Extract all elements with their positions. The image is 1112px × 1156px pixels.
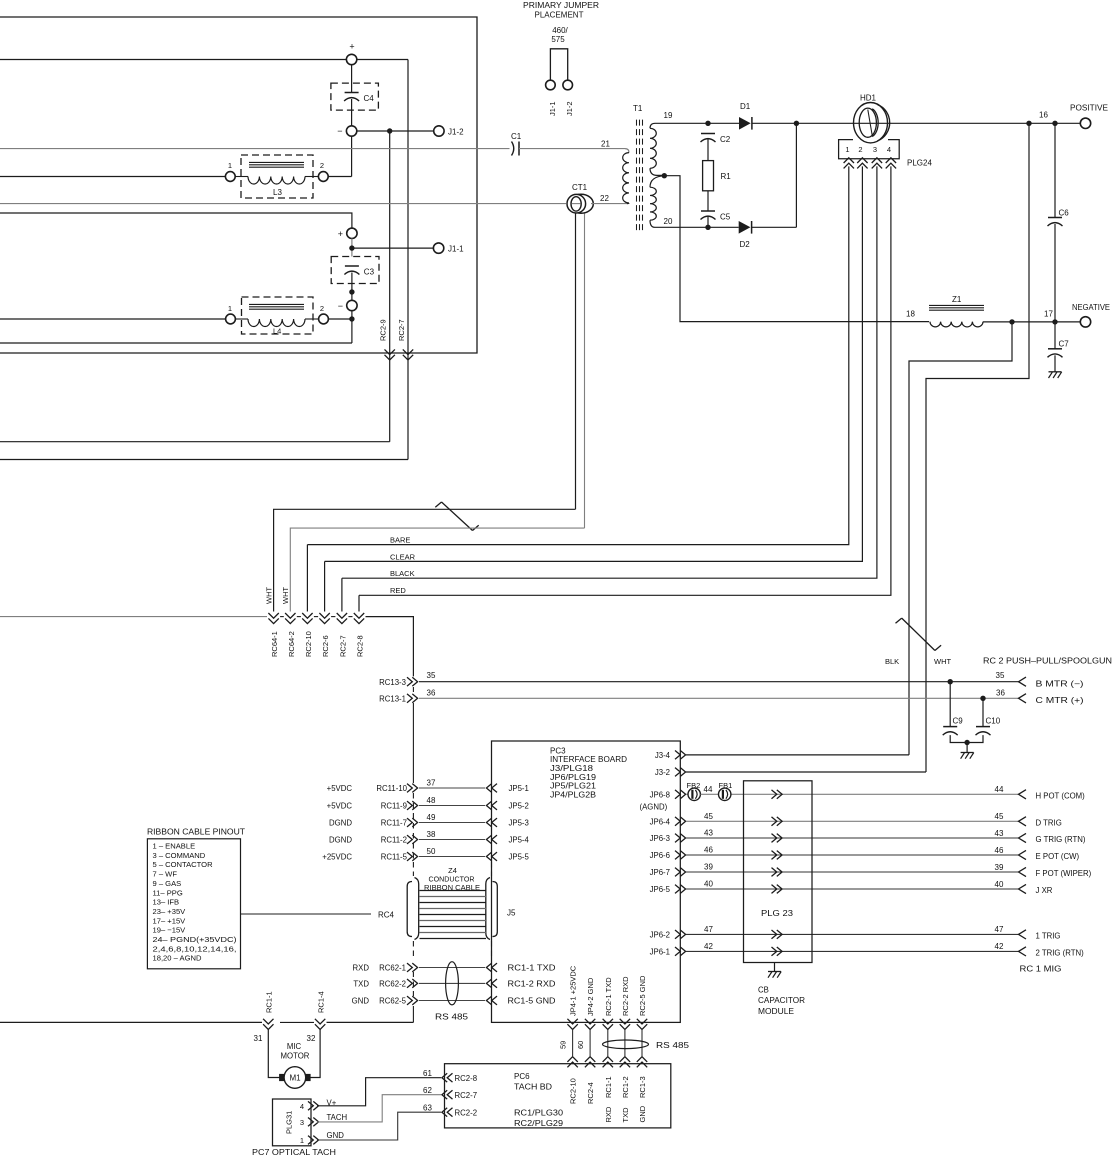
pin RC11-7 (cable side) [329, 818, 418, 827]
PC3 board title text [550, 746, 627, 799]
svg-text:18: 18 [906, 310, 915, 319]
svg-text:R1: R1 [721, 172, 732, 181]
pin JP6-8 [650, 790, 686, 799]
svg-text:+5VDC: +5VDC [327, 784, 353, 793]
pin JP6-1 [650, 947, 686, 956]
node - (terminal, top section) [337, 126, 357, 136]
diode D2 [739, 221, 752, 249]
connector column dashed (RC62 rows) [412, 972, 414, 1022]
label WHT (right) [934, 657, 951, 666]
node 17 / NEGATIVE terminal [1044, 303, 1110, 327]
svg-text:CB: CB [758, 986, 769, 995]
wire PLG24-3 to BLACK [342, 166, 877, 578]
svg-text:59: 59 [559, 1041, 568, 1049]
wire FB2 to FB1 [701, 793, 719, 795]
wire to L4 pin 1 [0, 318, 226, 320]
wire RC2-2 RXD drop [624, 1030, 626, 1057]
wire JP6-2 to 1 TRIG [686, 933, 1019, 935]
svg-text:D1: D1 [740, 102, 751, 111]
transformer T1 secondary bottom winding [650, 176, 664, 228]
svg-text:RC1-1: RC1-1 [265, 991, 274, 1013]
pin E POT (CW) [1019, 850, 1080, 861]
svg-text:RC62-5: RC62-5 [379, 997, 407, 1006]
wire junction to J1-1 [352, 247, 433, 249]
label (AGND) [640, 803, 668, 812]
transformer T1 primary winding [623, 149, 629, 204]
svg-text:44: 44 [995, 785, 1004, 794]
label BLACK [390, 569, 415, 578]
svg-text:JP5/PLG21: JP5/PLG21 [550, 782, 597, 791]
node + (battery positive terminal, top) [346, 42, 356, 65]
label 45 (right) [995, 812, 1004, 821]
junction at L4 pin 2 [349, 316, 354, 321]
pin RC13-3 [379, 677, 417, 687]
svg-text:24– PGND(+35VDC): 24– PGND(+35VDC) [153, 935, 238, 944]
svg-text:JP5-5: JP5-5 [509, 852, 530, 861]
svg-text:49: 49 [427, 813, 436, 822]
svg-text:CAPACITOR: CAPACITOR [758, 996, 805, 1005]
inner section wire box (L4 section return) [0, 342, 352, 344]
pin RC62-2 TXD (cable side) [353, 979, 417, 988]
pin D TRIG [1019, 817, 1062, 828]
svg-text:J1-2: J1-2 [565, 101, 574, 116]
wire 21 (gray) left edge to C1 [0, 148, 510, 150]
svg-text:9 – GAS: 9 – GAS [153, 879, 182, 888]
PLG31 pin 4 [300, 1101, 319, 1110]
wire RC1-4 to motor [310, 1030, 320, 1078]
label RS 485 (PC6 link) [656, 1041, 690, 1050]
pin H POT (COM) [1019, 790, 1086, 801]
wire 37 RC11-10 to JP5-1 [419, 779, 485, 789]
svg-text:44: 44 [704, 785, 713, 794]
label 460/575 [551, 26, 568, 44]
svg-text:62: 62 [423, 1086, 432, 1095]
PLG24 pin 4 [886, 145, 896, 168]
PLG24 pin 2 [857, 145, 867, 168]
svg-text:RC1-4: RC1-4 [317, 991, 326, 1013]
junction positive rail tap A [1026, 121, 1031, 126]
svg-text:DGND: DGND [329, 818, 352, 827]
PLG23 feed-through arrow (JP6-6 row) [772, 851, 783, 860]
svg-text:JP6-1: JP6-1 [650, 947, 670, 956]
pin RC2-2 (PC6 left) [423, 1104, 477, 1118]
label CLEAR [390, 552, 416, 561]
wire WHT 1 (CT1 left to RC64-1) [274, 509, 576, 611]
svg-text:JP5-4: JP5-4 [509, 835, 530, 844]
capacitor C6 chain wire [1054, 123, 1056, 322]
PC6 board text [514, 1072, 564, 1128]
wire - terminal to J1-2 [357, 130, 434, 132]
label WHT 1 [265, 587, 274, 604]
svg-text:1: 1 [228, 161, 232, 170]
ribbon cable bracket (left) [407, 878, 419, 940]
inductor L4 winding [235, 319, 318, 336]
wire - to L4 pin2 junction [351, 311, 353, 343]
wire positive tap to J3-2 drop [926, 123, 1029, 772]
svg-text:J1-1: J1-1 [448, 245, 464, 254]
svg-text:37: 37 [427, 779, 436, 788]
PLG23 feed-through arrow (JP6-3 row) [772, 834, 783, 843]
pin RC2-7 harness entry arrow [337, 613, 348, 657]
jumper terminal J1-1 [546, 80, 557, 116]
svg-text:43: 43 [995, 829, 1004, 838]
svg-text:MOTOR: MOTOR [281, 1052, 310, 1061]
transformer T1 core [637, 120, 643, 232]
svg-text:RC13-3: RC13-3 [379, 678, 406, 687]
svg-text:39: 39 [995, 863, 1004, 872]
svg-text:RS 485: RS 485 [656, 1041, 690, 1050]
wire + terminal feed (y=59.5) from left edge to RC2-7 drop [0, 59, 408, 61]
harness cable line (bottom) with corner [0, 1021, 413, 1023]
label WHT 2 [281, 587, 290, 604]
label RED [390, 586, 406, 595]
svg-text:23– +35V: 23– +35V [153, 907, 187, 916]
jumper link 460/575 [550, 49, 567, 80]
pin F POT (WIPER) [1019, 867, 1092, 878]
svg-text:+25VDC: +25VDC [322, 852, 352, 861]
svg-text:32: 32 [307, 1034, 316, 1043]
svg-text:Z1: Z1 [952, 295, 962, 304]
wire 20 T1 to D2 [655, 226, 739, 228]
svg-text:RC2-7: RC2-7 [397, 319, 406, 341]
svg-text:JP5-3: JP5-3 [509, 818, 529, 827]
svg-text:JP4-2 GND: JP4-2 GND [586, 977, 595, 1016]
svg-text:L3: L3 [273, 188, 282, 197]
svg-text:RC11-10: RC11-10 [376, 784, 407, 793]
svg-text:RC1-1 TXD: RC1-1 TXD [508, 964, 556, 973]
label 46 (left) [704, 846, 713, 855]
pin RC2-5 GND (PC3 bottom) [637, 975, 647, 1029]
svg-text:22: 22 [600, 194, 609, 203]
svg-text:L4: L4 [273, 327, 281, 336]
wire L4 section feed (y=213) to + terminal [0, 213, 352, 228]
PLG23 feed-through arrow (JP6-1 row) [772, 947, 783, 956]
pin 1 TRIG [1019, 930, 1061, 941]
svg-text:1: 1 [228, 304, 232, 313]
svg-text:C2: C2 [720, 135, 731, 144]
svg-text:2,4,6,8,10,12,14,16,: 2,4,6,8,10,12,14,16, [153, 944, 237, 953]
svg-text:J1-2: J1-2 [448, 128, 464, 137]
svg-text:RC1-2: RC1-2 [621, 1076, 630, 1098]
svg-text:5 – CONTACTOR: 5 – CONTACTOR [153, 860, 214, 869]
pin RC2-10 (PC6 top) [567, 1057, 577, 1104]
pin JP4-1 +25VDC (PC3 bottom) [567, 965, 577, 1029]
wire 38 RC11-2 to JP5-4 [419, 830, 485, 840]
connector J1-1 [433, 243, 464, 254]
svg-text:2: 2 [320, 161, 324, 170]
node + (terminal, L4 section) [338, 228, 357, 239]
wire C5 to 20 wire [707, 217, 709, 228]
pin JP6-3 [650, 834, 686, 843]
svg-text:RC2-10: RC2-10 [304, 631, 313, 657]
junction D-rail [794, 121, 799, 126]
svg-text:J3-2: J3-2 [655, 768, 670, 777]
pin RC2-8 harness entry arrow [354, 613, 365, 657]
pin RC11-5 (cable side) [322, 852, 417, 861]
junction C10 tap [980, 696, 985, 701]
svg-text:1 – ENABLE: 1 – ENABLE [153, 842, 196, 851]
capacitor C10 [976, 698, 1001, 735]
PC6 tach board outline [445, 1064, 671, 1128]
svg-text:48: 48 [427, 796, 436, 805]
pin RC2-7 exit arrow [397, 319, 413, 360]
label RC4 [378, 911, 395, 920]
pin RC64-2 harness entry arrow [285, 613, 296, 657]
wire JP6-3 to G TRIG (RTN) [686, 837, 1019, 839]
svg-text:RC2-4: RC2-4 [586, 1082, 595, 1104]
svg-text:RC2-1 TXD: RC2-1 TXD [604, 977, 613, 1016]
ground (CB capacitor module) [768, 972, 781, 978]
svg-text:18,20 – AGND: 18,20 – AGND [153, 954, 202, 963]
label 39 (left) [704, 863, 713, 872]
label PC7 OPTICAL TACH [252, 1148, 336, 1156]
wire 22 (gray) left edge to CT1 [0, 203, 566, 205]
pin J3-2 [655, 768, 686, 777]
svg-text:−: − [337, 126, 342, 136]
svg-text:JP6-7: JP6-7 [650, 868, 670, 877]
svg-text:H POT (COM): H POT (COM) [1036, 792, 1086, 801]
pin RC1-1 TXD [486, 963, 556, 972]
svg-text:46: 46 [704, 846, 713, 855]
pin RC2-7 (PC6 left) [423, 1086, 477, 1100]
svg-text:GND: GND [352, 997, 370, 1006]
svg-text:DGND: DGND [329, 835, 352, 844]
pin C MTR (+) [1019, 694, 1085, 705]
label GND [327, 1131, 345, 1140]
ground (C9/C10) [961, 753, 974, 759]
svg-text:RC1-2 RXD: RC1-2 RXD [508, 979, 556, 988]
wire L3 pin2 to - terminal [328, 176, 351, 178]
cable break symbol (BLK/WHT) [896, 618, 942, 650]
harness cable line (right) and drop to connector column [366, 617, 414, 677]
svg-text:D TRIG: D TRIG [1036, 819, 1062, 828]
wire PLG24-2 to CLEAR [325, 166, 863, 561]
pin RC1-2 RXD [486, 979, 556, 988]
label MIC MOTOR [281, 1042, 310, 1061]
wire riser RC2-8 to RED [358, 595, 360, 611]
PLG31 pin 3 [300, 1118, 319, 1127]
wire to L3 pin 1 [0, 176, 226, 178]
svg-text:17: 17 [1044, 310, 1053, 319]
ferrite bead FB1 [719, 781, 733, 801]
svg-text:RC2-8: RC2-8 [356, 635, 365, 657]
svg-text:WHT: WHT [281, 587, 290, 604]
svg-text:PC7 OPTICAL TACH: PC7 OPTICAL TACH [252, 1148, 336, 1156]
svg-text:42: 42 [995, 942, 1004, 951]
svg-text:J3/PLG18: J3/PLG18 [550, 764, 594, 773]
junction C5 bottom [705, 225, 710, 230]
pin JP6-5 [650, 885, 686, 894]
wire RC2-9 vertical drop [0, 131, 390, 442]
connector PLG 23 box [744, 781, 813, 963]
svg-text:B MTR (−): B MTR (−) [1036, 679, 1085, 688]
label BLK [885, 657, 899, 666]
inductor L4 core bars [249, 304, 304, 309]
connector column dashed (around ribbon) [413, 862, 491, 960]
PLG31 pin 1 [300, 1136, 319, 1145]
pin JP5-5 [486, 852, 529, 861]
svg-text:RC2-9: RC2-9 [379, 319, 388, 341]
svg-text:13– IFB: 13– IFB [153, 898, 180, 907]
label 43 (right) [995, 829, 1004, 838]
label 31 [254, 1034, 263, 1043]
svg-text:TXD: TXD [353, 979, 369, 988]
ferrite bead FB2 [686, 781, 700, 801]
svg-text:RC 1 MIG: RC 1 MIG [1020, 965, 1062, 974]
junction negative rail tap A [1009, 319, 1014, 324]
label RC 1 MIG [1020, 965, 1062, 974]
svg-text:60: 60 [576, 1041, 585, 1049]
svg-text:PLG24: PLG24 [907, 159, 932, 168]
label GND (PC6) [638, 1105, 647, 1122]
wire C9/C10 common [950, 735, 983, 752]
svg-text:21: 21 [601, 140, 610, 149]
svg-text:575: 575 [551, 35, 565, 44]
node T1 center tap [662, 173, 667, 178]
svg-text:−: − [338, 301, 343, 311]
node - (terminal, L4 section) [338, 300, 357, 311]
wire C3 to - terminal [351, 273, 353, 301]
wire JP4-2 GND drop [589, 1030, 591, 1057]
label 40 (right) [995, 880, 1004, 889]
svg-text:31: 31 [254, 1034, 263, 1043]
wire 50 RC11-5 to JP5-5 [419, 847, 485, 857]
wire J3-2 to positive drop [686, 771, 926, 773]
label 43 (left) [704, 829, 713, 838]
pin RC62-1 RXD (cable side) [353, 963, 418, 972]
svg-text:RC64-2: RC64-2 [287, 631, 296, 657]
svg-text:4: 4 [887, 145, 891, 154]
pin RC2-8 (PC6 left) [423, 1069, 477, 1083]
junction C9/C10 ground node [964, 740, 969, 745]
svg-text:C7: C7 [1059, 340, 1070, 349]
wire 21 C1 to T1 primary [519, 140, 625, 149]
svg-text:RC11-7: RC11-7 [381, 818, 407, 827]
svg-text:36: 36 [996, 689, 1005, 698]
wire PLG23 ground stem [774, 963, 776, 972]
svg-text:BLK: BLK [885, 657, 899, 666]
ribbon cable pinout table box [147, 828, 245, 969]
wire L4 pin2 to junction [328, 318, 352, 320]
wire RC62-2 to RC1-2 RXD [419, 982, 485, 984]
junction negative rail tap B [1052, 319, 1057, 324]
PLG24 pin 1 [844, 145, 854, 168]
PLG23 feed-through arrow (JP6-2 row) [772, 930, 783, 939]
svg-text:(AGND): (AGND) [640, 803, 668, 812]
pin J XR [1019, 884, 1053, 895]
svg-text:46: 46 [995, 846, 1004, 855]
wire + to J1-1 junction [351, 239, 353, 257]
svg-text:WHT: WHT [265, 587, 274, 604]
capacitor C5 [701, 211, 731, 222]
svg-text:Z4: Z4 [448, 866, 457, 875]
PLG23 feed-through arrow (JP6-8 row) [772, 790, 783, 799]
PC3 interface board outline [492, 741, 681, 1022]
pin 2 TRIG (RTN) [1019, 947, 1085, 958]
svg-text:J1-1: J1-1 [548, 101, 557, 116]
svg-text:RC2-5 GND: RC2-5 GND [638, 975, 647, 1016]
svg-text:J XR: J XR [1036, 886, 1053, 895]
label RXD (PC6) [604, 1106, 613, 1122]
wire RC1-1 to motor [268, 1030, 279, 1078]
label 40 (left) [704, 880, 713, 889]
inductor Z1 core bars [929, 295, 984, 310]
svg-text:NEGATIVE: NEGATIVE [1072, 303, 1110, 312]
capacitor C7 [1048, 340, 1070, 358]
svg-text:63: 63 [423, 1104, 432, 1113]
wire RC62-1 to RC1-1 TXD [419, 967, 485, 969]
pin RC11-2 (cable side) [329, 835, 418, 844]
pin RC13-1 [379, 694, 417, 704]
capacitor C9 [943, 682, 964, 735]
wire PLG24-1 to BARE [307, 166, 848, 544]
pin RC2-10 harness entry arrow [302, 613, 313, 657]
svg-text:1 TRIG: 1 TRIG [1036, 932, 1061, 941]
pin JP5-4 [486, 835, 529, 844]
label BARE [390, 536, 410, 545]
inductor L3 dashed enclosure [241, 155, 313, 198]
pin JP6-6 [650, 851, 686, 860]
current transformer CT1 [567, 183, 593, 213]
svg-text:PRIMARY JUMPER: PRIMARY JUMPER [523, 1, 599, 10]
cable Z4 ribbon conductors [420, 891, 487, 939]
svg-text:JP5-1: JP5-1 [509, 784, 529, 793]
label V+ [327, 1099, 337, 1108]
svg-text:2 TRIG (RTN): 2 TRIG (RTN) [1036, 949, 1085, 958]
capacitor C2 [701, 134, 731, 145]
wire 36 to C MTR [419, 689, 1019, 699]
wire JP6-1 to 2 TRIG (RTN) [686, 950, 1019, 952]
svg-text:JP6-6: JP6-6 [650, 851, 670, 860]
wire 22 CT1 to T1 primary [591, 194, 627, 204]
PLG23 feed-through arrow (JP6-4 row) [772, 817, 783, 826]
svg-text:PLG 23: PLG 23 [761, 909, 794, 918]
label 19 [664, 111, 673, 120]
wire negative rail Z1 to NEGATIVE terminal [983, 321, 1080, 323]
junction below C3 [349, 289, 354, 294]
label 32 [307, 1034, 316, 1043]
capacitor C3 [344, 266, 374, 277]
svg-text:19: 19 [664, 111, 673, 120]
pin RC62-5 GND (cable side) [352, 996, 418, 1005]
svg-text:11– PPG: 11– PPG [153, 888, 183, 897]
svg-text:7 – WF: 7 – WF [153, 870, 178, 879]
svg-text:50: 50 [427, 847, 436, 856]
svg-text:+: + [349, 42, 354, 52]
svg-text:HD1: HD1 [860, 94, 877, 103]
svg-text:J5: J5 [507, 909, 516, 918]
pin RC2-4 (PC6 top) [585, 1057, 595, 1104]
wire TACH (pin3 to 62/RC2-7) [317, 1095, 441, 1122]
pin RC1-1 (motor harness) [263, 991, 274, 1029]
label 46 (right) [995, 846, 1004, 855]
svg-text:FB1: FB1 [719, 781, 733, 790]
pin J3-4 [655, 751, 686, 760]
svg-text:RC11-5: RC11-5 [381, 852, 408, 861]
svg-text:RC2-2 RXD: RC2-2 RXD [621, 976, 630, 1016]
svg-text:47: 47 [704, 925, 713, 934]
svg-text:D2: D2 [740, 240, 751, 249]
svg-text:JP4/PLG2B: JP4/PLG2B [550, 791, 596, 800]
label RC 2 PUSH-PULL/SPOOLGUN [983, 657, 1112, 666]
junction on J1-2 wire (RC2-9 tap) [387, 128, 392, 133]
svg-text:CT1: CT1 [572, 183, 588, 192]
label 45 (left) [704, 812, 713, 821]
svg-text:JP6-3: JP6-3 [650, 834, 670, 843]
svg-text:C MTR (+): C MTR (+) [1036, 696, 1085, 705]
transformer T1 secondary top winding [650, 123, 664, 175]
svg-text:JP4-1 +25VDC: JP4-1 +25VDC [569, 965, 578, 1016]
